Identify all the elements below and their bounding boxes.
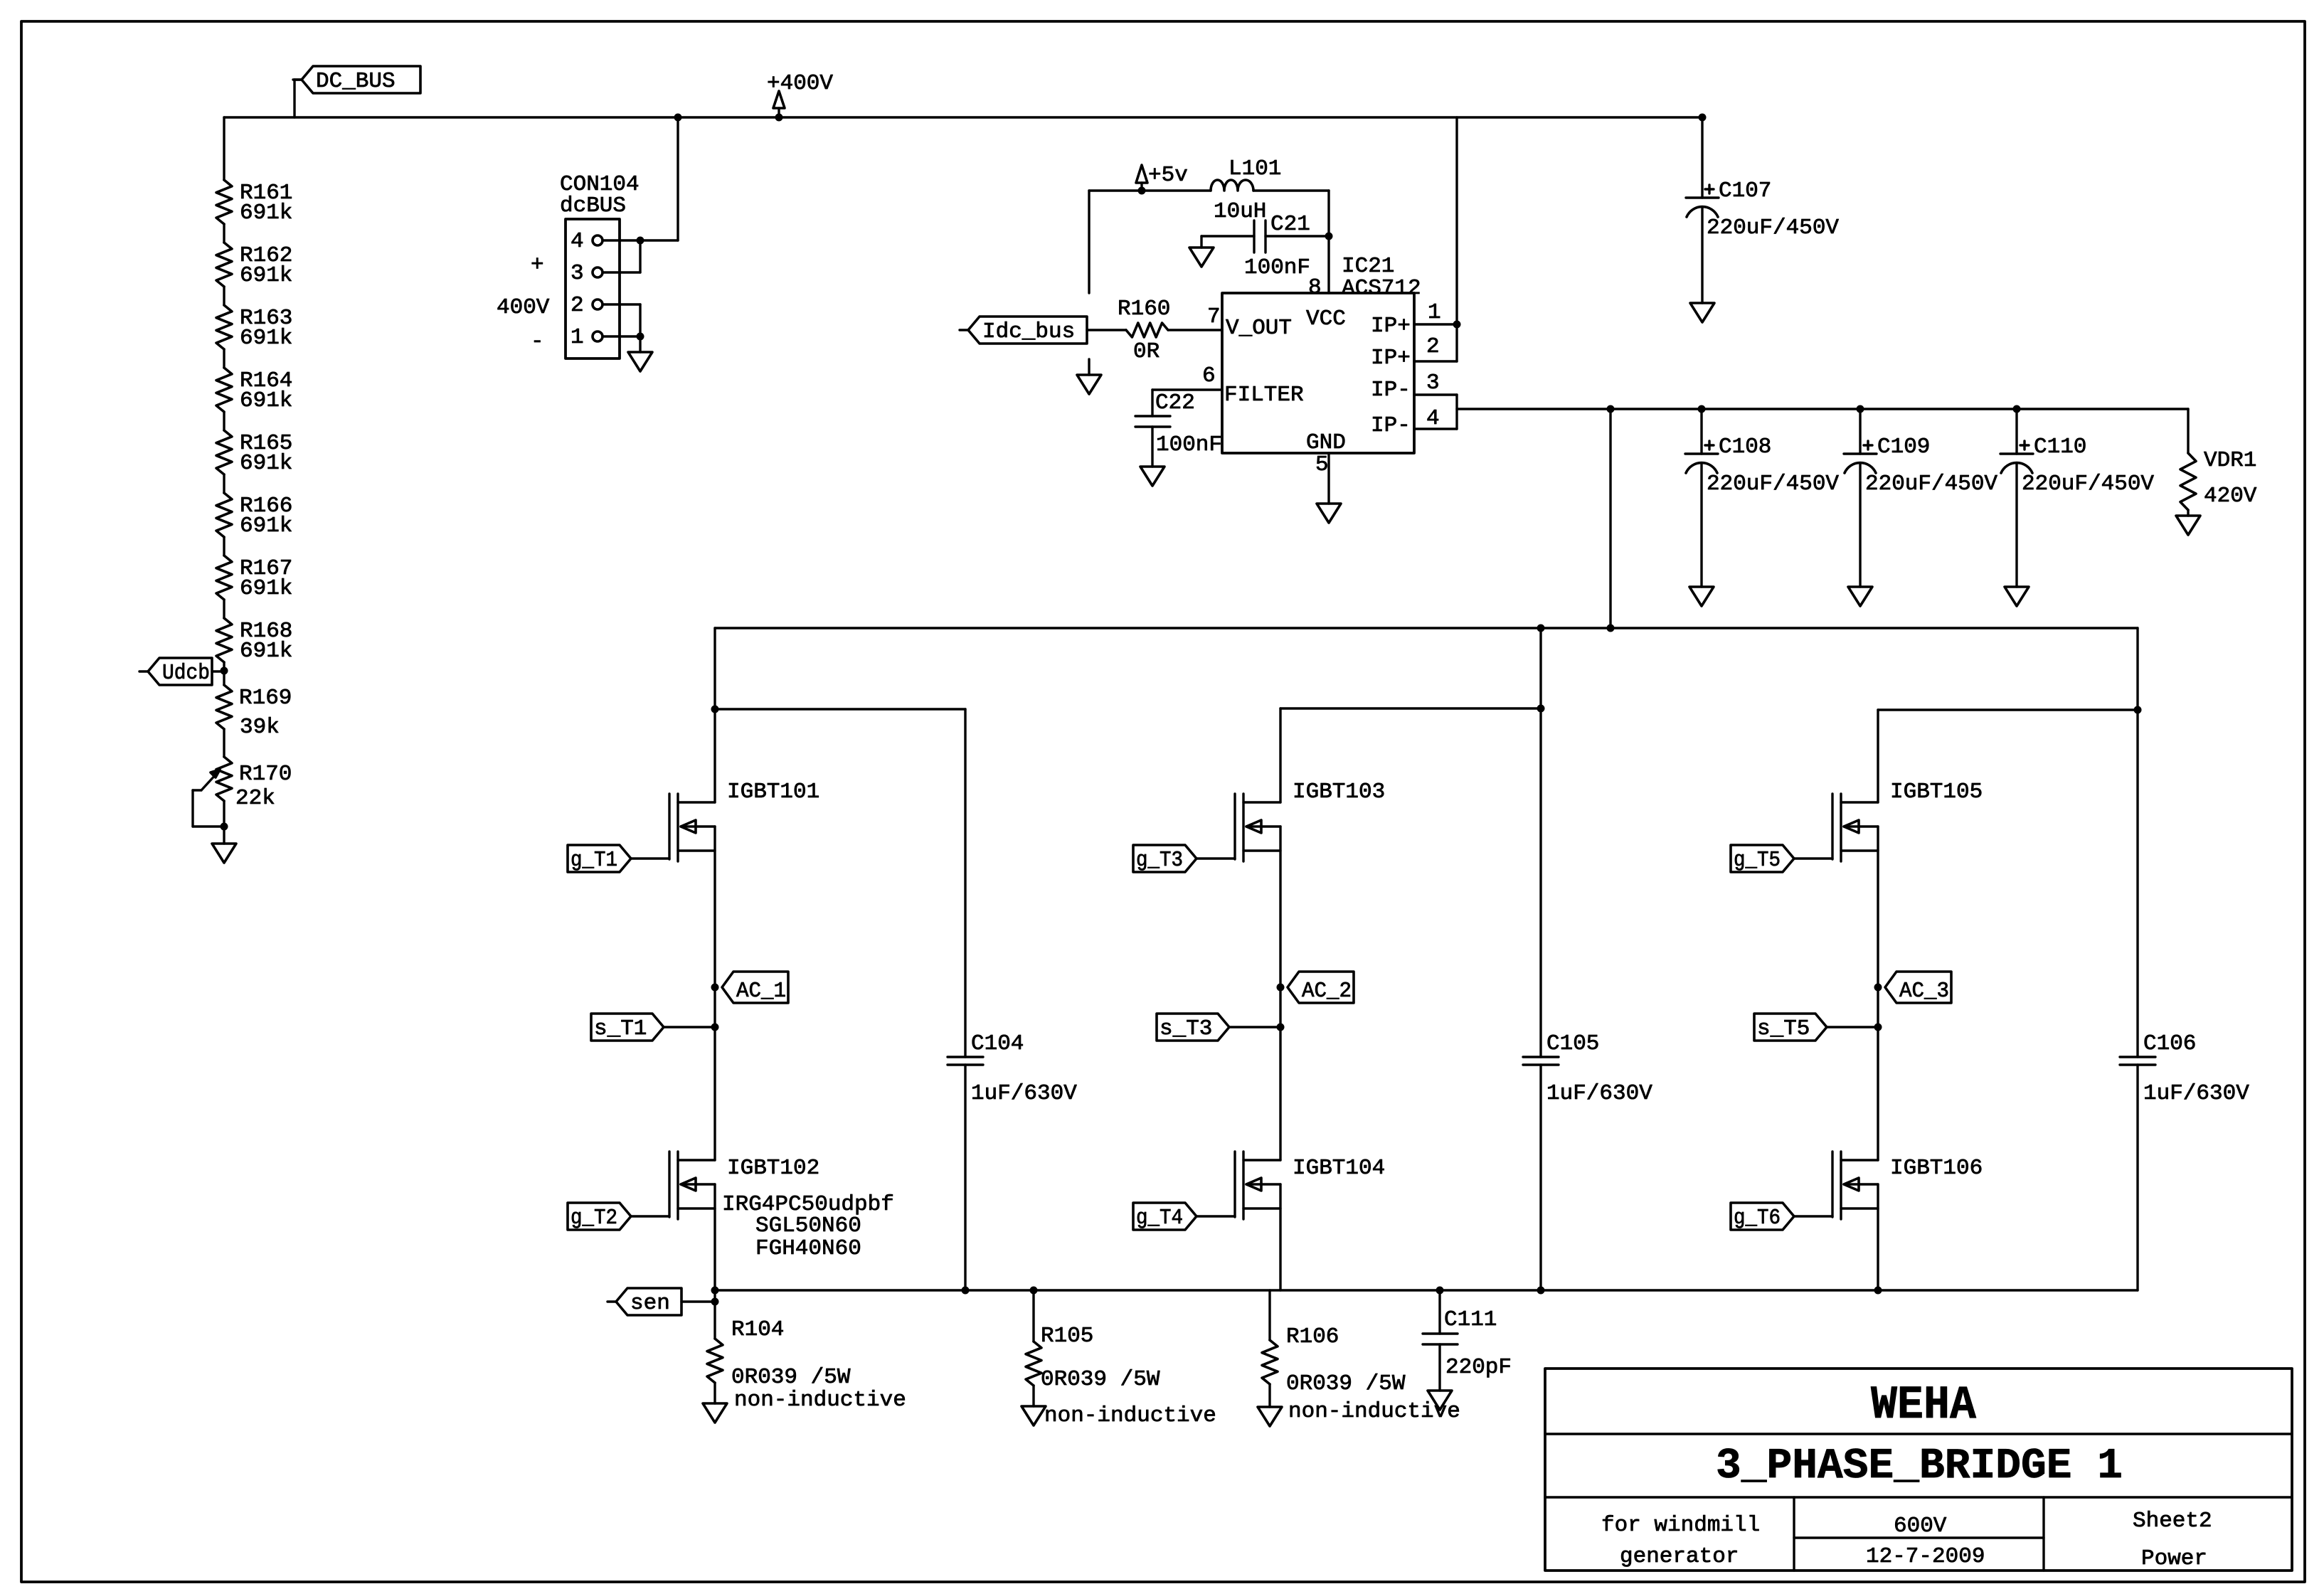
svg-text:R160: R160 — [1118, 297, 1170, 322]
svg-text:R105: R105 — [1041, 1324, 1093, 1349]
title note line2 — [1620, 1544, 1739, 1569]
resistor R105 — [1026, 1290, 1216, 1428]
wire R170 to ground — [223, 801, 225, 827]
wire IGBT101 source to AC — [713, 827, 716, 1160]
pin 4 number — [1426, 406, 1440, 431]
svg-text:non-inductive: non-inductive — [1044, 1403, 1216, 1428]
svg-text:sen: sen — [630, 1291, 670, 1316]
capacitor C106 — [2120, 710, 2249, 1290]
svg-text:IP-: IP- — [1371, 378, 1411, 403]
transistor IGBT105 — [1832, 780, 1983, 861]
svg-text:C21: C21 — [1270, 212, 1310, 237]
IC pin name FILTER — [1224, 383, 1304, 408]
capacitor C21 — [1244, 212, 1310, 280]
junction s-node — [1277, 1024, 1285, 1031]
capacitor C22 — [1135, 390, 1222, 457]
svg-text:g_T6: g_T6 — [1734, 1206, 1781, 1231]
ground C110 — [2005, 464, 2029, 606]
wire rail drop C106 — [2136, 628, 2138, 710]
junction bus-CON104 — [674, 114, 682, 122]
svg-text:0R039 /5W: 0R039 /5W — [731, 1365, 851, 1390]
wire IGBT103 source to AC — [1279, 827, 1281, 1160]
pin 8 number — [1308, 275, 1322, 300]
title company WEHA — [1871, 1378, 1976, 1432]
junction AC node — [1874, 984, 1882, 992]
svg-text:691k: 691k — [240, 576, 292, 601]
wire bus drop to IP+ — [1455, 117, 1458, 324]
junction C110 — [2013, 405, 2021, 413]
junction AC node — [1277, 984, 1285, 992]
node Udcb label — [139, 658, 223, 686]
svg-text:C107: C107 — [1719, 179, 1771, 203]
svg-text:AC_2: AC_2 — [1302, 979, 1352, 1004]
junction C-branch C104 — [711, 706, 719, 713]
svg-text:non-inductive: non-inductive — [734, 1388, 906, 1413]
capacitor C105 — [1523, 708, 1652, 1290]
label CON104 400V — [497, 295, 550, 320]
svg-text:39k: 39k — [240, 715, 280, 740]
wire to C104 — [715, 708, 965, 710]
svg-text:3_PHASE_BRIDGE 1: 3_PHASE_BRIDGE 1 — [1716, 1442, 2123, 1491]
wire pin3 stub — [1414, 393, 1457, 395]
wire — [223, 224, 225, 243]
wire — [223, 474, 225, 493]
svg-text:R169: R169 — [239, 686, 292, 711]
title date — [1866, 1544, 1985, 1569]
svg-text:1: 1 — [571, 325, 584, 350]
resistor R169 — [216, 685, 292, 740]
svg-text:220uF/450V: 220uF/450V — [1707, 216, 1839, 240]
power +5v — [1136, 163, 1188, 191]
svg-text:for windmill: for windmill — [1601, 1513, 1760, 1538]
svg-text:AC_3: AC_3 — [1899, 979, 1949, 1004]
svg-text:Power: Power — [2141, 1546, 2207, 1571]
svg-text:7: 7 — [1207, 304, 1221, 329]
svg-text:Idc_bus: Idc_bus — [982, 319, 1075, 344]
svg-text:3: 3 — [1426, 371, 1440, 395]
node g_T4 label — [1133, 1203, 1197, 1231]
junction sen — [711, 1298, 719, 1306]
transistor IGBT106 — [1832, 1152, 1983, 1219]
wire to bridge IGBT103 — [1280, 708, 1541, 802]
junction bus-+400V — [775, 114, 783, 122]
wire pin1 — [603, 335, 640, 337]
junction pin1 — [637, 333, 644, 341]
junction rail-IPdrop — [1607, 625, 1615, 632]
svg-text:C22: C22 — [1155, 390, 1195, 415]
node DC_BUS label — [293, 66, 420, 94]
svg-text:691k: 691k — [240, 326, 292, 351]
node AC_2 label — [1288, 972, 1354, 1004]
capacitor C111 — [1423, 1290, 1512, 1380]
svg-text:5: 5 — [1315, 452, 1329, 477]
svg-text:12-7-2009: 12-7-2009 — [1866, 1544, 1985, 1569]
wire s_T3 — [1229, 1026, 1280, 1028]
wire s_T1 — [664, 1026, 715, 1028]
svg-text:0R: 0R — [1133, 339, 1160, 364]
svg-text:VDR1: VDR1 — [2204, 448, 2256, 473]
junction rail-C105 — [1537, 625, 1545, 632]
svg-text:C105: C105 — [1546, 1031, 1599, 1056]
junction rail-C104 — [962, 1287, 970, 1295]
wire — [223, 412, 225, 430]
wire IP- drop to bridge rail — [1609, 409, 1611, 628]
title voltage — [1894, 1514, 1947, 1539]
junction s-node — [1874, 1024, 1882, 1031]
wire to bridge IGBT105 — [1878, 710, 2138, 802]
svg-text:+400V: +400V — [767, 71, 833, 96]
svg-text:generator: generator — [1620, 1544, 1739, 1569]
junction C109 — [1857, 405, 1864, 413]
resistor R106 — [1262, 1290, 1460, 1424]
svg-text:IGBT103: IGBT103 — [1293, 780, 1385, 804]
IC U1 ACS712 body — [1222, 254, 1421, 453]
resistor R162 — [216, 243, 292, 288]
pin 3 number — [1426, 371, 1440, 395]
node s_T5 label — [1754, 1014, 1827, 1041]
junction Udcb — [221, 667, 228, 675]
svg-text:ACS712: ACS712 — [1342, 276, 1421, 301]
wire IGBT105 source to AC — [1877, 827, 1879, 1160]
resistor R167 — [216, 556, 292, 601]
svg-text:DC_BUS: DC_BUS — [316, 69, 396, 94]
svg-text:IGBT105: IGBT105 — [1890, 780, 1983, 804]
wire L101 to VCC — [1253, 191, 1329, 293]
IC pin name IP- 4 — [1371, 413, 1411, 438]
junction IP- drop — [1607, 405, 1615, 413]
svg-text:691k: 691k — [240, 263, 292, 288]
svg-text:C110: C110 — [2034, 435, 2086, 459]
svg-text:R106: R106 — [1286, 1324, 1339, 1349]
transistor IGBT103 — [1235, 780, 1385, 861]
ground R106 — [1258, 1384, 1282, 1426]
wire R160 to pin7 — [1168, 329, 1222, 331]
junction bus-C107 — [1699, 114, 1707, 122]
junction rail-IGBT106 — [1874, 1287, 1882, 1295]
ground R105 — [1022, 1386, 1046, 1425]
svg-text:g_T5: g_T5 — [1734, 848, 1781, 873]
wire IGBT104 source to rail — [1279, 1184, 1281, 1290]
capacitor C109 — [1844, 409, 1997, 496]
wire g_T3 — [1197, 857, 1235, 859]
svg-text:2: 2 — [1426, 334, 1440, 359]
node g_T3 label — [1133, 845, 1197, 873]
inductor L101 — [1211, 156, 1281, 224]
wire pin2 — [603, 304, 640, 336]
svg-text:C109: C109 — [1877, 435, 1930, 459]
svg-text:10uH: 10uH — [1214, 199, 1266, 224]
svg-text:1: 1 — [1428, 300, 1441, 325]
resistor R165 — [216, 430, 292, 476]
IC pin name VCC — [1306, 307, 1346, 331]
potentiometer R170 — [216, 757, 292, 811]
wire pin2 stub — [1414, 324, 1457, 361]
ground C22 — [1140, 427, 1164, 486]
svg-text:VCC: VCC — [1306, 307, 1346, 331]
ground C108 — [1689, 464, 1714, 606]
svg-text:FILTER: FILTER — [1224, 383, 1304, 408]
connector CON104 — [560, 172, 640, 358]
IC pin name IP+ 1 — [1371, 314, 1411, 339]
resistor R164 — [216, 368, 292, 413]
wire GND pin5 — [1327, 453, 1330, 504]
svg-text:g_T4: g_T4 — [1136, 1206, 1183, 1231]
resistor R168 — [216, 618, 292, 664]
junction C-branch C105 — [1537, 705, 1545, 713]
svg-text:Udcb: Udcb — [162, 661, 210, 686]
pin 2 number — [1426, 334, 1440, 359]
svg-text:691k: 691k — [240, 201, 292, 225]
svg-text:IGBT104: IGBT104 — [1293, 1156, 1385, 1181]
wire g_T6 — [1794, 1215, 1832, 1217]
svg-text:C111: C111 — [1444, 1307, 1497, 1332]
svg-text:100nF: 100nF — [1156, 432, 1222, 457]
svg-text:1uF/630V: 1uF/630V — [1546, 1081, 1652, 1106]
svg-text:IC21: IC21 — [1342, 254, 1394, 279]
svg-text:0R039 /5W: 0R039 /5W — [1041, 1367, 1160, 1392]
svg-text:WEHA: WEHA — [1871, 1378, 1976, 1432]
node sen label — [607, 1288, 681, 1316]
ground R104 — [703, 1383, 727, 1423]
wire R168 to R169 — [223, 662, 225, 685]
ground C109 — [1848, 464, 1872, 606]
svg-text:Sheet2: Sheet2 — [2133, 1509, 2212, 1534]
wire FILTER pin6 — [1152, 388, 1222, 390]
svg-text:R170: R170 — [239, 762, 292, 787]
junction C-branch C106 — [2134, 706, 2142, 714]
svg-text:C106: C106 — [2143, 1031, 2196, 1056]
wire bridge top rail — [715, 627, 2138, 629]
power +400V — [767, 71, 833, 117]
pin 5 number — [1315, 452, 1329, 477]
wire DC_BUS stub — [295, 80, 302, 117]
junction rail-C111 — [1436, 1287, 1444, 1295]
node AC_3 label — [1885, 972, 1951, 1004]
wire IGBT102 source to rail — [713, 1184, 716, 1290]
svg-text:C104: C104 — [971, 1031, 1024, 1056]
ground VDR1 — [2176, 510, 2200, 535]
wire IGBT106 source to rail — [1877, 1184, 1879, 1290]
resistor R166 — [216, 493, 292, 538]
R170 wiper arrow — [193, 770, 224, 827]
title sheet number — [2133, 1509, 2212, 1534]
svg-text:dcBUS: dcBUS — [560, 193, 626, 218]
junction C108 — [1698, 405, 1706, 413]
svg-text:220pF: 220pF — [1445, 1355, 1512, 1380]
junction s-node — [711, 1024, 719, 1031]
svg-text:8: 8 — [1308, 275, 1322, 300]
svg-text:3: 3 — [571, 261, 584, 286]
svg-text:691k: 691k — [240, 514, 292, 538]
svg-text:V_OUT: V_OUT — [1226, 316, 1292, 341]
wire Idc_bus to R160 — [1087, 329, 1126, 331]
resistor R160 — [1118, 297, 1170, 364]
pin 7 number — [1207, 304, 1221, 329]
ground below Idc_bus — [1077, 359, 1101, 394]
svg-text:600V: 600V — [1894, 1514, 1947, 1539]
svg-text:420V: 420V — [2204, 484, 2257, 509]
capacitor C110 — [2000, 409, 2154, 496]
svg-text:4: 4 — [571, 229, 584, 254]
wire sen — [681, 1300, 715, 1302]
junction +5v — [1138, 187, 1146, 195]
wire +5v rail — [1089, 189, 1211, 191]
ground C111 — [1428, 1344, 1452, 1410]
wire — [223, 349, 225, 368]
label CON104 plus — [531, 253, 544, 277]
IC pin name IP+ 2 — [1371, 346, 1411, 371]
svg-text:691k: 691k — [240, 639, 292, 664]
resistor R161 — [216, 180, 292, 225]
wire pin1 stub — [1414, 323, 1457, 325]
svg-text:+5v: +5v — [1148, 163, 1188, 188]
svg-text:IGBT101: IGBT101 — [727, 780, 819, 804]
svg-text:s_T3: s_T3 — [1160, 1016, 1212, 1041]
node s_T3 label — [1157, 1014, 1229, 1041]
label CON104 minus — [531, 329, 544, 354]
title block frame — [1545, 1369, 2292, 1571]
wire — [223, 287, 225, 305]
svg-text:IGBT102: IGBT102 — [727, 1156, 819, 1181]
svg-text:691k: 691k — [240, 451, 292, 476]
junction rail-C105 — [1537, 1287, 1545, 1295]
IC pin name V_OUT — [1226, 316, 1292, 341]
transistor IGBT101 — [669, 780, 819, 861]
node g_T5 label — [1731, 845, 1794, 873]
node g_T6 label — [1731, 1203, 1794, 1231]
svg-text:220uF/450V: 220uF/450V — [1865, 472, 1997, 496]
wire C21 right — [1266, 235, 1329, 237]
wire — [223, 537, 225, 556]
svg-text:1uF/630V: 1uF/630V — [2143, 1081, 2249, 1106]
wire pin3 — [603, 240, 640, 272]
IC pin name GND — [1306, 430, 1346, 455]
svg-text:1uF/630V: 1uF/630V — [971, 1081, 1077, 1106]
title sheet name — [1716, 1442, 2123, 1491]
wire g_T4 — [1197, 1215, 1235, 1217]
title power — [2141, 1546, 2207, 1571]
wire rail to IGBT101 — [713, 628, 716, 802]
svg-text:IGBT106: IGBT106 — [1890, 1156, 1983, 1181]
svg-text:2: 2 — [571, 293, 584, 318]
junction R170-ground — [221, 823, 228, 831]
svg-text:100nF: 100nF — [1244, 255, 1310, 280]
svg-text:IP-: IP- — [1371, 413, 1411, 438]
pin 6 number — [1202, 363, 1216, 388]
resistor R104 — [707, 1317, 906, 1413]
wire s_T5 — [1827, 1026, 1878, 1028]
ground CON104 — [628, 336, 652, 371]
svg-text:FGH40N60: FGH40N60 — [755, 1236, 861, 1261]
wire pin4 stub — [1414, 395, 1457, 429]
resistor R163 — [216, 305, 292, 351]
svg-text:IP+: IP+ — [1371, 346, 1411, 371]
ground IC21 — [1317, 504, 1341, 523]
capacitor C104 — [948, 709, 1077, 1290]
svg-text:IP+: IP+ — [1371, 314, 1411, 339]
svg-text:220uF/450V: 220uF/450V — [2022, 472, 2154, 496]
pin 1 number — [1428, 300, 1441, 325]
ground chain — [212, 827, 236, 863]
wire C21 left — [1201, 235, 1254, 237]
junction rail-R104 — [711, 1287, 719, 1295]
svg-text:g_T3: g_T3 — [1136, 848, 1183, 873]
wire R169 to R170 — [223, 729, 225, 757]
transistor IGBT104 — [1235, 1152, 1385, 1219]
wire — [223, 600, 225, 618]
svg-text:+: + — [531, 253, 544, 277]
svg-text:C108: C108 — [1719, 435, 1771, 459]
svg-text:6: 6 — [1202, 363, 1216, 388]
svg-text:R104: R104 — [731, 1317, 784, 1342]
title note line1 — [1601, 1513, 1760, 1538]
label IGBT102 part numbers — [722, 1192, 894, 1261]
wire g_T2 — [631, 1215, 669, 1217]
node s_T1 label — [591, 1014, 664, 1041]
capacitor C108 — [1685, 409, 1839, 496]
svg-text:0R039 /5W: 0R039 /5W — [1286, 1371, 1406, 1396]
wire g_T5 — [1794, 857, 1832, 859]
wire +400V bus — [224, 116, 1702, 118]
wire rail drop C105 — [1539, 628, 1542, 708]
ground C21 — [1189, 236, 1214, 267]
svg-text:AC_1: AC_1 — [736, 979, 786, 1004]
junction pin4 — [637, 237, 644, 245]
capacitor C107 — [1686, 117, 1839, 240]
svg-text:220uF/450V: 220uF/450V — [1707, 472, 1839, 496]
wire bus drop to pin4 — [603, 117, 678, 240]
junction rail-R105 — [1030, 1287, 1038, 1295]
svg-text:691k: 691k — [240, 388, 292, 413]
junction C21-VCC — [1325, 233, 1333, 240]
node g_T2 label — [568, 1203, 631, 1231]
svg-text:4: 4 — [1426, 406, 1440, 431]
IC pin name IP- 3 — [1371, 378, 1411, 403]
svg-text:g_T2: g_T2 — [571, 1206, 617, 1231]
ground C107 — [1690, 208, 1714, 322]
node g_T1 label — [568, 845, 631, 873]
svg-text:400V: 400V — [497, 295, 550, 320]
svg-text:L101: L101 — [1229, 156, 1281, 181]
node Idc_bus label — [960, 317, 1087, 344]
wire IP- rail — [1457, 408, 2188, 410]
svg-text:-: - — [531, 329, 544, 354]
junction AC node — [711, 984, 719, 992]
wire to R104 — [713, 1290, 716, 1339]
svg-text:22k: 22k — [235, 786, 275, 811]
wire g_T1 — [631, 857, 669, 859]
svg-text:s_T5: s_T5 — [1757, 1016, 1810, 1041]
wire +5v drop — [1088, 191, 1090, 293]
svg-text:g_T1: g_T1 — [571, 848, 617, 873]
varistor VDR1 — [2180, 409, 2257, 510]
svg-text:GND: GND — [1306, 430, 1346, 455]
node AC_1 label — [722, 972, 788, 1004]
wire bridge bottom rail — [715, 1289, 2138, 1291]
junction IP+ pin1 — [1453, 321, 1461, 329]
wire bus to R161 — [223, 117, 225, 180]
svg-text:SGL50N60: SGL50N60 — [755, 1213, 861, 1238]
svg-text:s_T1: s_T1 — [594, 1016, 647, 1041]
transistor IGBT102 — [669, 1152, 819, 1219]
